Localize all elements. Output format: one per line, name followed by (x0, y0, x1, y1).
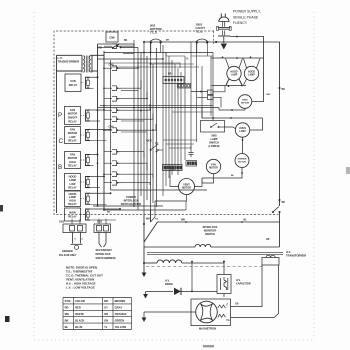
contact S6 (112, 117, 117, 122)
svg-text:OVEN: OVEN (239, 128, 246, 130)
wire SW2 feed drop (212, 53, 214, 119)
bus line r8 (184, 56, 186, 160)
wire hood lamp 1 top leads (226, 59, 230, 69)
magnetron filament top (218, 305, 226, 308)
wire transformer top lead (57, 54, 83, 56)
svg-text:WH: WH (267, 94, 271, 96)
svg-text:BL: BL (65, 325, 69, 329)
bus line r9 (190, 42, 192, 151)
wire relay K1 to bus (90, 76, 98, 78)
wire relay K3 to bus (90, 129, 111, 131)
wire magnetron anode (144, 311, 196, 313)
wire relay K1 lower pin (90, 87, 94, 89)
svg-text:SWITCH(UPPER): SWITCH(UPPER) (121, 202, 142, 206)
svg-text:BK: BK (124, 40, 128, 42)
wire monitor run top (158, 221, 280, 223)
secondary interlock switch symbol (98, 233, 100, 244)
interlock monitor switch (272, 211, 274, 213)
wire cross g (185, 201, 187, 210)
svg-text:FUENCY: FUENCY (233, 21, 248, 25)
wire cross l (170, 170, 175, 175)
wire cross f (151, 201, 156, 222)
relay K5 contact (86, 177, 91, 188)
wire magnetron filament bottom lead (231, 265, 279, 318)
wire oven loop right (250, 118, 263, 130)
wire cross h (163, 139, 197, 141)
page fold dotted line bottom (34, 339, 314, 341)
wire hood lamp bottom rail (213, 85, 246, 87)
relay K4 contact (86, 155, 91, 166)
junction live rail (279, 87, 281, 89)
ground arrow hv diode (143, 294, 148, 299)
svg-text:SWITCH: SWITCH (205, 232, 215, 236)
bus wire h10 (121, 120, 144, 122)
contact S8 (112, 149, 117, 154)
connector CN8 box (106, 32, 118, 42)
junction interlock (143, 223, 145, 225)
wire CN11 in a (191, 91, 208, 93)
wire hood lamp 2 top leads (244, 59, 247, 69)
svg-text:40/75: 40/75 (146, 140, 152, 143)
svg-text:RD: RD (65, 306, 69, 310)
wire cap bottom lead (223, 294, 225, 298)
hv capacitor C1 element (220, 278, 222, 290)
relay K1 box (65, 74, 81, 92)
oven lamp (235, 123, 249, 137)
relay K5 link (81, 181, 85, 183)
junction hood top rail (236, 57, 238, 59)
relay K3 link (81, 134, 85, 136)
wire CN8 contact out (121, 47, 139, 49)
wire hv corner (144, 242, 147, 247)
svg-text:OR: OR (266, 239, 270, 241)
bus line v1 (97, 44, 99, 206)
thermostat TS 40/75 (150, 149, 152, 151)
svg-text:INTERLOCK: INTERLOCK (96, 252, 111, 256)
svg-text:BOTTOM: BOTTOM (150, 27, 162, 31)
relay K3 contact (86, 130, 91, 141)
svg-text:SWITCH(INNER): SWITCH(INNER) (96, 256, 116, 260)
thermostat TCO1 (90/2 BOTTOM) (150, 39, 163, 42)
wire relay K4 to bus (90, 154, 98, 156)
bus line r4 (171, 60, 173, 175)
power plug body (219, 17, 229, 22)
wire secondary tap down (191, 262, 193, 292)
svg-text:WH: WH (146, 219, 150, 221)
wire fan motor down (202, 174, 214, 183)
wire cross d (121, 44, 134, 46)
wire S8 fanout (121, 152, 144, 158)
magnetron box (191, 299, 231, 326)
wire oven lamp feed (202, 108, 263, 118)
wire cross i (166, 143, 194, 145)
junction live rail 2 (279, 199, 281, 201)
wire cross a (98, 58, 164, 60)
relay K3 box (65, 127, 81, 144)
thermostat TCO2 (105/2 CAVITY) (196, 39, 209, 42)
wire hv primary run (147, 246, 195, 248)
svg-text:BROWN: BROWN (115, 299, 126, 303)
colour table grid (62, 298, 64, 330)
power plug cord (222, 22, 224, 27)
wire top rail TCO (144, 41, 216, 43)
wire live rail top (216, 42, 280, 206)
bus junction dots (103, 105, 105, 107)
svg-text:BLACK: BLACK (75, 318, 84, 322)
control unit dashed stub (213, 31, 215, 44)
svg-text:POWER: POWER (126, 195, 136, 199)
bus wire h12 (121, 89, 138, 91)
relay K2 contact (86, 110, 91, 121)
svg-text:FAN: FAN (211, 164, 216, 167)
bus line r2 (165, 52, 167, 186)
wire relay K4 lower pin (90, 165, 94, 167)
wire left rail (56, 55, 58, 213)
svg-text:MOTOR: MOTOR (209, 167, 218, 169)
wire hood lamp 1 bottom leads (226, 79, 229, 85)
wire vent motor lead a (170, 175, 179, 187)
junction plug (215, 41, 217, 43)
svg-text:FAN: FAN (70, 108, 75, 112)
relay K4 box (65, 152, 81, 169)
junction live tap (215, 41, 217, 43)
bus wire h9 (151, 63, 195, 65)
svg-text:HOOD: HOOD (69, 174, 77, 178)
bus line r12 (210, 56, 212, 116)
page mark bottom-left (5, 316, 10, 322)
junction top rail left (143, 41, 145, 43)
relay K6 box (65, 191, 81, 207)
svg-text:MAIN: MAIN (69, 211, 76, 215)
fan motor (206, 159, 220, 173)
power plug prongs (220, 14, 222, 18)
wire hood loop right (252, 58, 264, 102)
wire S5 fanout (121, 104, 150, 110)
chassis dash line (146, 266, 262, 268)
bus line r6 (177, 68, 179, 175)
relay K6 contact (86, 193, 91, 204)
svg-text:CN6: CN6 (109, 64, 115, 67)
svg-text:RED: RED (75, 306, 81, 310)
svg-text:BL: BL (244, 219, 248, 222)
wire transformer sec bottom (91, 70, 98, 72)
bus junction dots 2 (103, 67, 105, 69)
svg-text:MOTOR: MOTOR (241, 102, 250, 104)
svg-text:BK: BK (282, 201, 286, 204)
svg-text:(LOWER): (LOWER) (209, 145, 220, 148)
wire S2 fanout (121, 62, 138, 68)
relay CN8 contact (112, 47, 114, 49)
svg-text:TRAY: TRAY (242, 99, 248, 102)
wire S3 fanout (121, 80, 141, 88)
hv transformer primary coil (195, 244, 211, 247)
wire S11 fanout (121, 183, 150, 185)
wire live to monitor lower (279, 212, 281, 247)
bus line r7 (180, 72, 182, 164)
transformer T1 primary coil (84, 56, 85, 73)
power outlet bar 1 (218, 27, 231, 29)
svg-text:GRAY: GRAY (115, 306, 123, 310)
svg-text:MOTOR: MOTOR (238, 161, 246, 163)
wire S1 fanout (121, 40, 134, 46)
bus line m5 (146, 56, 148, 200)
wire diode run (146, 291, 174, 293)
wire hood lamp top rail (211, 57, 260, 59)
power outlet pins (222, 31, 224, 36)
junction oven-stirrer (242, 139, 244, 141)
wire relay K6 lower pin (90, 203, 107, 205)
wire S6 fanout (121, 114, 153, 119)
ground arrow below plug (221, 44, 227, 50)
svg-text:POWER SUPPLY,: POWER SUPPLY, (233, 10, 261, 14)
bus line v3 (110, 60, 112, 190)
hood lamp 1 (227, 66, 241, 80)
tray motor (238, 95, 252, 109)
svg-text:B: B (58, 164, 62, 171)
svg-text:HIGH: HIGH (69, 160, 76, 164)
bus line r3 (168, 56, 170, 178)
stirrer motor (235, 154, 249, 168)
svg-text:T.C.O.: T.C.O. (150, 31, 158, 35)
wire CN8 lower (123, 53, 134, 55)
page mark left-edge (0, 205, 3, 212)
svg-text:RELAY: RELAY (68, 186, 77, 190)
svg-text:GN: GN (235, 304, 239, 306)
svg-text:601-2108 ONLY: 601-2108 ONLY (59, 254, 77, 257)
bus wire h11 (121, 131, 147, 133)
wire CN11 out b (213, 97, 221, 107)
hv transformer secondary coil (144, 262, 157, 264)
relay K2 box (65, 107, 81, 125)
svg-text:FA: FA (227, 319, 230, 322)
bus wire h7 (98, 43, 135, 45)
svg-text:P: P (58, 112, 62, 119)
bus line r1 (162, 45, 164, 196)
relay K7 box (65, 208, 81, 221)
svg-text:HOOD: HOOD (248, 72, 255, 74)
thermostat TCO1 legs (150, 43, 152, 53)
contact S7 (112, 128, 117, 133)
svg-text:TRANSFORMER: TRANSFORMER (58, 59, 80, 63)
page mark bottom-center (203, 345, 214, 347)
svg-text:CN4: CN4 (109, 126, 115, 129)
wire neutral branch (230, 37, 264, 59)
svg-text:BK: BK (282, 88, 286, 91)
svg-text:BR: BR (104, 299, 108, 303)
wire relay K3 lower pin (90, 140, 107, 142)
svg-text:T.C.O.: T.C.O. (196, 30, 204, 34)
svg-text:ON/OFF: ON/OFF (68, 116, 78, 120)
lamp switch SW2 top lead (212, 118, 214, 121)
svg-text:INTERLOCK: INTERLOCK (124, 199, 139, 203)
svg-text:STIRRER: STIRRER (238, 159, 248, 161)
bus wire h2 (98, 107, 220, 109)
wire cross j (169, 147, 191, 149)
bus line m2 (137, 48, 139, 211)
svg-text:SYM: SYM (65, 299, 72, 303)
svg-text:ORANGE: ORANGE (115, 312, 127, 316)
wire hood lamp 2 bottom leads (244, 79, 247, 85)
bus line r5 (174, 64, 176, 170)
bus line r10 (196, 43, 198, 142)
connector CN9 strip (186, 161, 197, 167)
connector CN10 strip (163, 77, 184, 84)
bus line m1 (133, 44, 135, 206)
hv diode D1 (174, 288, 181, 295)
contact S4 (112, 96, 117, 101)
magnetron filament bottom (218, 314, 226, 317)
relay K7 link (81, 214, 85, 216)
door senser symbol (72, 233, 74, 244)
wire S7 fanout (121, 124, 156, 130)
ground arrow interlock rail (142, 273, 147, 278)
svg-text:FAN: FAN (70, 152, 75, 156)
svg-text:GN: GN (104, 318, 108, 322)
svg-text:GY: GY (155, 219, 159, 221)
junction cap top (223, 261, 225, 263)
svg-text:RELAY: RELAY (69, 83, 78, 87)
svg-text:LOW: LOW (70, 182, 77, 186)
svg-text:MOTOR: MOTOR (68, 112, 78, 116)
svg-text:90/2: 90/2 (150, 24, 156, 28)
svg-text:MONITOR: MONITOR (204, 228, 216, 232)
svg-text:SUB: SUB (70, 79, 76, 83)
relay K1 link (81, 82, 84, 84)
bus line v2 (103, 51, 105, 210)
wire relay K6 to bus (90, 192, 111, 194)
contact S1 (112, 44, 117, 49)
transformer T1 core (86, 56, 88, 73)
svg-text:L.V. : LOW VOLTAGE: L.V. : LOW VOLTAGE (66, 286, 95, 290)
wire capacitor top lead (223, 262, 225, 275)
svg-text:GREEN: GREEN (115, 318, 125, 322)
wire relay K2 to bus (90, 109, 104, 111)
bus line m8 (156, 48, 158, 207)
transformer T1 secondary coil (89, 56, 90, 73)
svg-text:H.V.: H.V. (286, 250, 291, 254)
vent capacitor symbol (189, 152, 194, 154)
svg-text:TRANSFORMER: TRANSFORMER (286, 253, 306, 257)
svg-text:SENSER: SENSER (62, 249, 73, 253)
power outlet bar 2 (218, 35, 230, 37)
vent motor (179, 179, 195, 195)
svg-text:COLOR: COLOR (75, 299, 85, 303)
magnetron tube (196, 301, 218, 323)
svg-text:LAMP: LAMP (231, 73, 238, 76)
junction monitor run (185, 221, 187, 223)
lamp switch SW2 box (201, 121, 225, 133)
wire S10 fanout (121, 174, 153, 178)
svg-text:RELAY: RELAY (68, 202, 77, 206)
page fold dotted line left (33, 12, 35, 340)
svg-text:INTERLOCK: INTERLOCK (203, 225, 218, 229)
contact S2 (112, 66, 117, 71)
bus line m7 (152, 64, 154, 203)
svg-text:RELAY: RELAY (68, 119, 77, 123)
svg-text:SINGLE PHASE: SINGLE PHASE (233, 15, 259, 19)
svg-text:RELAY: RELAY (68, 164, 77, 168)
svg-text:FAN: FAN (70, 127, 75, 131)
svg-text:BK: BK (166, 40, 170, 42)
bus wire h3 (93, 205, 163, 207)
contact S9 (112, 161, 117, 166)
wire stirrer down (202, 168, 242, 179)
wire transformer bottom lead (57, 70, 83, 72)
svg-text:BK: BK (65, 318, 69, 322)
relay K6 link (81, 198, 85, 200)
hv filament winding (262, 258, 279, 266)
control unit dashed border (54, 31, 279, 215)
contact S10 (112, 172, 117, 177)
svg-text:YL: YL (104, 325, 108, 329)
svg-text:OR: OR (104, 312, 108, 316)
svg-text:GY: GY (104, 306, 108, 310)
bus wire h1 (100, 105, 213, 107)
wire CN11 out a (213, 86, 225, 92)
page fold dotted line right (313, 12, 315, 340)
junction hood bottom rail (241, 85, 243, 87)
connector CN7 strip (163, 165, 183, 171)
wire relay K7 lower pin (90, 219, 116, 221)
svg-text:LOW: LOW (70, 135, 77, 139)
wire S9 fanout (121, 163, 147, 170)
svg-text:RELAY: RELAY (68, 139, 77, 143)
hv transformer core (147, 251, 283, 253)
bus line m4 (143, 42, 145, 214)
wire relay K2 lower pin (90, 120, 100, 122)
connector CN5 strip (178, 84, 191, 89)
svg-text:105/2: 105/2 (196, 23, 203, 27)
relay K2 link (81, 115, 85, 117)
wire hood rail left drop (211, 85, 213, 87)
primary interlock switch blade (144, 222, 158, 242)
svg-text:WHITE: WHITE (75, 312, 84, 316)
wire relay K5 to bus (90, 176, 104, 178)
bus wire h8 (191, 55, 213, 57)
wire cross c (111, 66, 200, 68)
svg-text:CN2: CN2 (59, 221, 65, 224)
bus wire h5 (111, 189, 208, 191)
svg-text:RD: RD (99, 48, 103, 50)
svg-text:DIODE: DIODE (165, 283, 173, 286)
wire S4 fanout (121, 92, 147, 99)
bus line m6 (150, 43, 152, 222)
svg-text:BR: BR (168, 74, 172, 76)
wire transformer sec top (91, 54, 105, 56)
svg-text:CN8: CN8 (109, 36, 115, 40)
junction CN11 (200, 91, 202, 93)
svg-text:LAMP: LAMP (248, 73, 255, 76)
wire cross m (166, 53, 185, 57)
relay K4 link (81, 159, 85, 161)
relay K1 contact (86, 77, 91, 88)
svg-text:MAGNETRON: MAGNETRON (199, 327, 216, 331)
svg-text:BK: BK (107, 212, 111, 214)
wire vent motor lead b (155, 195, 187, 202)
svg-text:CAVITY: CAVITY (196, 26, 206, 30)
wire cross k (172, 111, 213, 113)
connector CN1 housing (63, 224, 86, 233)
junction oven feed (212, 117, 214, 119)
wire cross b (104, 63, 180, 68)
wire tray motor bottom (244, 108, 246, 110)
transformer T1 pins (81, 56, 83, 73)
wire plug down (223, 37, 225, 44)
svg-text:BLUE: BLUE (75, 325, 83, 329)
bus line m3 (140, 52, 142, 196)
bus line r11 (201, 66, 203, 118)
wire relay K5 lower pin (90, 187, 100, 189)
